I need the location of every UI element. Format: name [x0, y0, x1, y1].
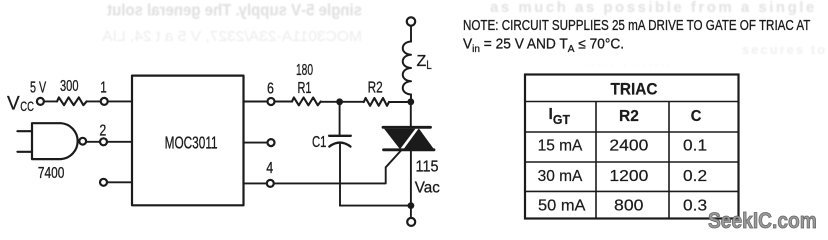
middle right pin terminal circle	[268, 139, 275, 146]
svg-text:1200: 1200	[609, 167, 648, 185]
svg-text:V: V	[7, 94, 20, 115]
svg-text:MOC3011A-23A/2327, V 5 a t 24,: MOC3011A-23A/2327, V 5 a t 24, LIA	[101, 28, 362, 45]
svg-text:as much as possible from a sin: as much as possible from a single	[490, 0, 817, 16]
node 2 terminal circle	[100, 138, 107, 145]
NAND gate input stub bottom	[17, 151, 32, 153]
triac bottom bar	[384, 148, 435, 151]
svg-text:6: 6	[267, 79, 274, 97]
triac Q1 left triangle	[384, 129, 416, 150]
svg-text:0.1: 0.1	[683, 137, 707, 154]
triac Q1 right triangle	[404, 128, 435, 149]
table TRIAC	[525, 75, 739, 219]
wire node 2 to MOC3011 pin	[108, 141, 133, 143]
wire R2 to node B	[389, 101, 411, 103]
node A junction dot	[336, 98, 343, 105]
svg-text:5 V: 5 V	[30, 78, 46, 95]
NAND gate output bubble	[79, 138, 86, 145]
pin 4 terminal circle	[267, 180, 274, 187]
svg-text:GT: GT	[553, 111, 570, 127]
svg-text:NOTE: CIRCUIT SUPPLIES 25 mA D: NOTE: CIRCUIT SUPPLIES 25 mA DRIVE TO GA…	[463, 17, 810, 33]
wire node B to triac	[410, 102, 412, 128]
capacitor C1 top lead	[339, 102, 341, 136]
resistor R2	[364, 98, 389, 106]
NAND gate 7400 body	[32, 123, 78, 159]
resistor 300	[57, 97, 87, 105]
wire pin 6 terminal to resistor R1	[275, 101, 292, 103]
node 1 terminal circle	[101, 98, 108, 105]
wire R1 to node A	[321, 101, 340, 103]
wire pin 4 to triac gate	[274, 151, 401, 184]
svg-text:C: C	[691, 108, 702, 125]
svg-text:MOC3011: MOC3011	[165, 133, 218, 153]
bottom terminal circle 115 Vac	[407, 218, 415, 226]
inductor ZL coil	[403, 42, 411, 95]
pin 6 terminal circle	[268, 98, 275, 105]
svg-text:L: L	[426, 59, 432, 72]
svg-text:R2: R2	[368, 79, 383, 96]
wire NAND bubble to node 2	[86, 141, 100, 143]
svg-text:SeekIC.com: SeekIC.com	[708, 209, 817, 234]
triac top bar	[383, 126, 431, 129]
svg-text:secures to: secures to	[742, 42, 827, 57]
wire resistor 300 to node 1	[87, 100, 100, 102]
svg-text:Z: Z	[417, 53, 427, 70]
wire C1 to bottom node	[340, 205, 411, 207]
svg-text:30 mA: 30 mA	[538, 168, 583, 185]
svg-text:115: 115	[416, 158, 439, 176]
svg-text:50 mA: 50 mA	[538, 198, 586, 214]
wire node A to resistor R2	[339, 101, 363, 103]
node bottom junction dot	[408, 202, 415, 209]
faint bleed-through text top left	[101, 0, 827, 69]
svg-text:0.3: 0.3	[683, 197, 707, 214]
MOC3011 unused pin terminal circle	[100, 179, 107, 186]
svg-text:C1: C1	[312, 133, 326, 150]
svg-text:300: 300	[60, 77, 78, 94]
svg-text:0.2: 0.2	[683, 168, 707, 185]
op-amp U1 MOC3011 box	[132, 76, 244, 206]
wire MOC3011 middle right pin	[244, 142, 268, 144]
svg-text:..... . ......: ..... . ......	[585, 55, 674, 69]
svg-text:15 mA: 15 mA	[538, 138, 583, 155]
capacitor C1 bottom lead	[339, 144, 341, 205]
wire top terminal to inductor ZL	[410, 26, 412, 42]
svg-text:Vac: Vac	[415, 179, 440, 196]
svg-text:R1: R1	[298, 79, 312, 96]
svg-text:7400: 7400	[38, 164, 65, 182]
NAND gate input stub top	[17, 130, 32, 132]
wire triac to bottom node	[410, 150, 412, 206]
wire unused pin to MOC3011	[108, 181, 133, 183]
wire MOC3011 pin 6 to terminal	[244, 101, 268, 103]
wire inductor ZL to node B	[410, 95, 412, 102]
svg-text:2400: 2400	[609, 136, 648, 154]
capacitor C1 curved plate	[329, 143, 350, 147]
wire node 1 to MOC3011 pin	[108, 100, 132, 102]
svg-text:single 5-V supply. The general: single 5-V supply. The general solut	[106, 2, 362, 20]
svg-text:180: 180	[296, 61, 313, 79]
capacitor C1 top plate	[329, 135, 351, 137]
svg-text:2: 2	[99, 121, 106, 139]
wire bottom node to bottom terminal	[410, 206, 412, 217]
svg-text:TRIAC: TRIAC	[611, 80, 658, 99]
top terminal circle	[407, 17, 415, 25]
svg-text:4: 4	[266, 159, 273, 177]
wire MOC3011 pin 4 to terminal	[244, 182, 267, 184]
svg-text:1: 1	[100, 79, 106, 96]
svg-text:R2: R2	[619, 108, 639, 125]
svg-text:CC: CC	[20, 99, 34, 114]
resistor R1	[292, 98, 321, 106]
svg-text:800: 800	[614, 197, 643, 215]
wire Vcc to resistor 300	[45, 100, 57, 102]
node B junction dot	[407, 98, 414, 105]
Vcc terminal circle	[37, 98, 44, 105]
